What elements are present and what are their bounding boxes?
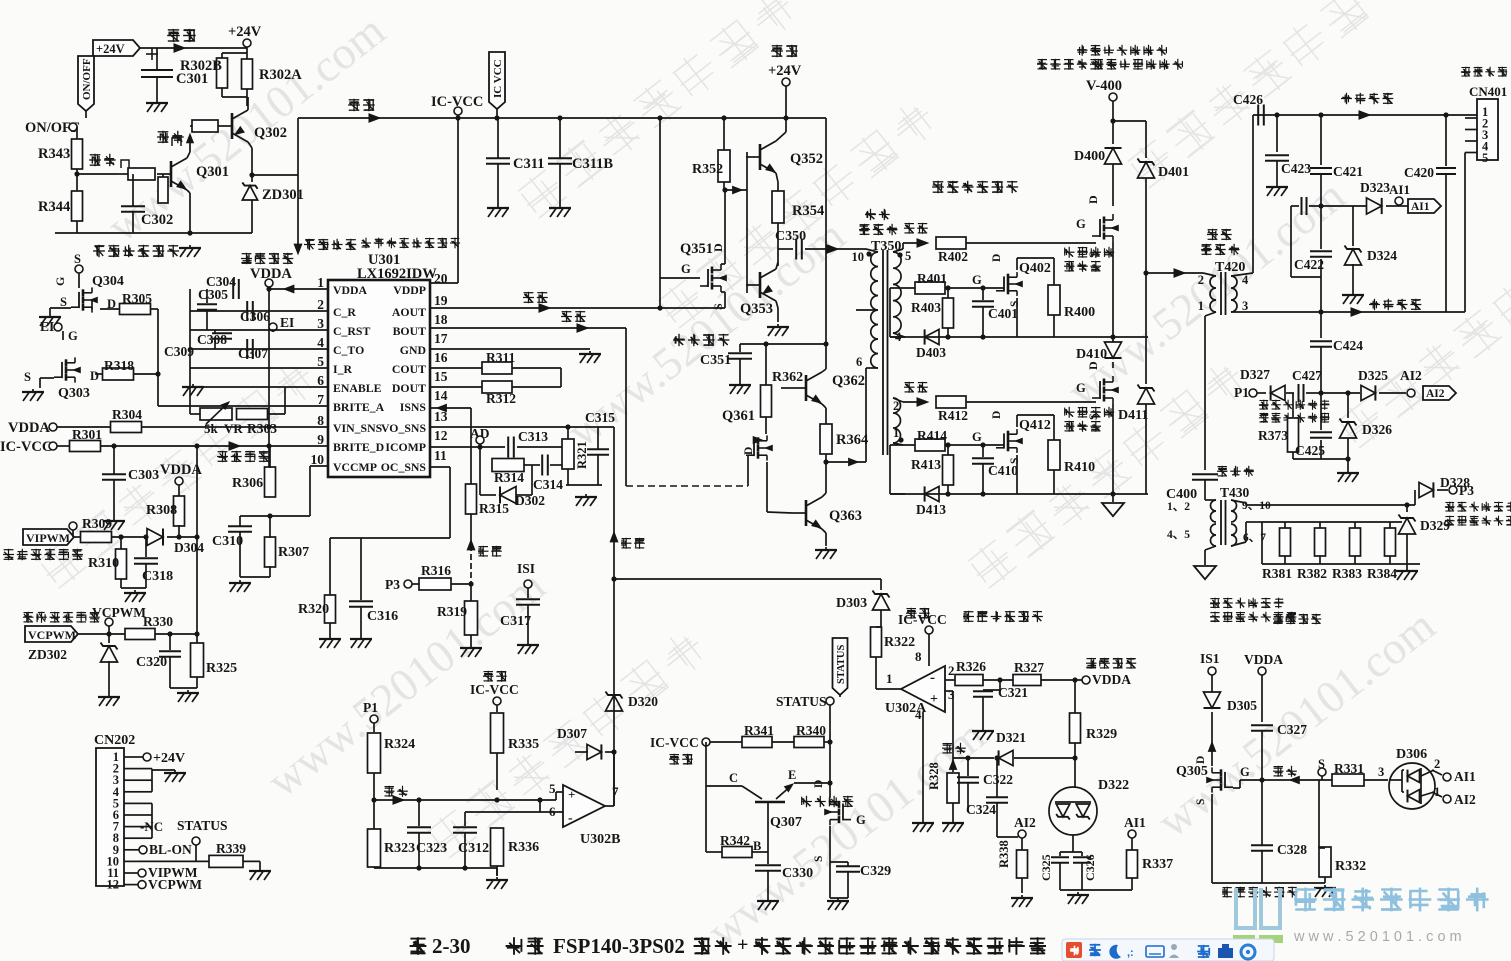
- wire Q363 emitter to ground: [822, 529, 826, 533]
- terminal AI1 right: [1432, 770, 1442, 775]
- svg-text:10: 10: [852, 250, 865, 264]
- resistor R383: [1354, 522, 1356, 528]
- ground under Q306: [830, 897, 848, 899]
- svg-text:VO_SNS: VO_SNS: [381, 421, 426, 435]
- svg-text:C330: C330: [782, 866, 813, 881]
- svg-text:C314: C314: [533, 477, 563, 492]
- capacitor C329: [830, 861, 848, 863]
- wire bottom rail protection: [1021, 878, 1023, 893]
- wire lower cell bottom rail: [890, 493, 1148, 495]
- wire Q412 source down: [1016, 455, 1018, 494]
- svg-text:S: S: [1009, 458, 1021, 464]
- ground under C330: [767, 898, 769, 900]
- svg-text:R307: R307: [278, 545, 309, 560]
- ground under R320: [329, 636, 331, 638]
- capacitor C311B: [559, 118, 561, 158]
- wire Q361 source down: [766, 462, 768, 512]
- svg-text:R302B: R302B: [180, 58, 222, 74]
- svg-text:C424: C424: [1333, 338, 1363, 353]
- svg-text:G: G: [1240, 765, 1250, 779]
- svg-text:Q303: Q303: [58, 386, 90, 401]
- label 推动电路: [673, 334, 729, 346]
- website logo text 家电维修资料网: [1294, 888, 1488, 912]
- resistor R303: [237, 409, 268, 420]
- svg-text:9: 9: [317, 432, 324, 447]
- svg-text:-: -: [568, 811, 573, 826]
- svg-text:B: B: [753, 839, 761, 853]
- svg-text:12: 12: [434, 428, 448, 443]
- svg-text:STATUS: STATUS: [177, 818, 228, 833]
- svg-text:IC-VCC: IC-VCC: [470, 682, 519, 697]
- CN202 pin12 VCPWM: [138, 881, 146, 889]
- svg-text:w w w . 5 2 0 1 0 1 . c o m: w w w . 5 2 0 1 0 1 . c o m: [1293, 929, 1462, 945]
- svg-text:20: 20: [434, 271, 448, 286]
- svg-text:R311: R311: [486, 350, 516, 365]
- svg-text:17: 17: [434, 331, 448, 346]
- svg-text:Q363: Q363: [829, 508, 862, 524]
- svg-text:VDDA: VDDA: [333, 283, 368, 297]
- wire pin12 ICOMP row and AD node: [430, 446, 505, 448]
- wire U301 pin1 row with arrow: [269, 288, 328, 290]
- svg-text:R301: R301: [72, 427, 102, 442]
- svg-text:R403: R403: [911, 300, 941, 315]
- wire left leg lower cell: [889, 445, 891, 494]
- svg-text:R329: R329: [1086, 727, 1117, 742]
- resistor R403: [943, 298, 954, 328]
- ground under C311B: [559, 205, 561, 207]
- svg-text:P1: P1: [363, 700, 378, 715]
- ground under R332: [1324, 885, 1326, 887]
- capacitor C307 series on pin4 row: [246, 339, 248, 359]
- wire T420 pin2 from driver: [1203, 273, 1216, 276]
- wire x=614 down from D320: [613, 579, 615, 806]
- svg-text:7: 7: [612, 784, 619, 799]
- svg-text:C324: C324: [966, 802, 996, 817]
- svg-text:G: G: [1076, 217, 1086, 231]
- wire right bus x=298 lamp-to-IC: [297, 118, 299, 250]
- capacitor C328: [1251, 844, 1273, 846]
- svg-text:AOUT: AOUT: [392, 305, 426, 319]
- wire U301 pin3 row: [190, 329, 328, 331]
- svg-text:5k: 5k: [204, 421, 219, 436]
- terminal V-400: [1109, 93, 1117, 101]
- svg-text:AI2: AI2: [1400, 368, 1422, 383]
- svg-text:AI1: AI1: [1389, 182, 1410, 197]
- wire +24V rail top-left: [140, 47, 247, 49]
- svg-text:VCPWM: VCPWM: [28, 628, 76, 642]
- svg-text:Q352: Q352: [790, 151, 823, 167]
- resistor R382: [1319, 522, 1321, 528]
- svg-text:R332: R332: [1335, 859, 1366, 874]
- svg-text:G: G: [972, 273, 982, 287]
- wire U301 pin9 row: [100, 445, 328, 447]
- wire Q352 emitter to R354: [776, 173, 778, 182]
- resistor R306: [265, 467, 276, 497]
- label 基准电压 VDDA: [241, 253, 293, 264]
- potentiometer 5k VR: [189, 380, 191, 414]
- resistor R413: [943, 455, 954, 485]
- svg-text:D: D: [1086, 195, 1100, 204]
- svg-text:C_TO: C_TO: [333, 343, 364, 357]
- pennant ON/OFF vertical: [78, 56, 94, 111]
- wire R320 column from rail y=538: [329, 538, 331, 595]
- wire pin13 VO_SNS row to protection line: [430, 426, 614, 428]
- wire T430 left down to earth: [1205, 499, 1216, 501]
- svg-text:Q301: Q301: [196, 164, 229, 180]
- T350 pin5: [897, 252, 902, 257]
- svg-text:C323: C323: [416, 841, 447, 856]
- wire C425 R373 bottoms to ground: [1321, 458, 1348, 460]
- svg-text:D400: D400: [1074, 149, 1105, 164]
- svg-text:R316: R316: [421, 563, 451, 578]
- capacitor C327: [1251, 724, 1273, 726]
- svg-text:R352: R352: [692, 162, 723, 177]
- wire gate row to S terminal: [1262, 779, 1313, 781]
- wire gate row to Q400: [966, 242, 1096, 244]
- svg-text:CN202: CN202: [94, 733, 135, 748]
- flag AI2: [1423, 386, 1456, 400]
- resistor R338: [1017, 850, 1028, 878]
- svg-text:C427: C427: [1292, 368, 1322, 383]
- svg-text:8: 8: [915, 649, 922, 664]
- capacitor C302: [132, 174, 134, 206]
- ground under R339: [259, 868, 261, 870]
- wire U301 pin10 row via R306 node: [310, 465, 328, 467]
- label 供电 (supply): [167, 29, 196, 42]
- capacitor C301: [156, 48, 158, 70]
- wire T430 pin6-7 to resistor rail: [1231, 542, 1246, 546]
- transistor Q302 (PNP): [231, 113, 234, 139]
- wire T430 pin9-10 to D328: [1231, 500, 1246, 503]
- svg-text:R328: R328: [927, 762, 941, 790]
- svg-text:3: 3: [1378, 765, 1384, 779]
- wire Q362 collector to mid rail: [822, 369, 826, 372]
- label 检测 up arrow: [942, 743, 966, 754]
- loop with R314: [479, 447, 481, 465]
- svg-text:R335: R335: [508, 737, 539, 752]
- svg-text:1: 1: [886, 671, 893, 686]
- capacitor C426 series on rail: [1257, 105, 1259, 126]
- capacitor C318: [145, 537, 147, 557]
- svg-text:R383: R383: [1332, 566, 1362, 581]
- junction dot C421 node: [1318, 203, 1323, 208]
- svg-text:T430: T430: [1220, 485, 1250, 500]
- capacitor C316: [360, 538, 362, 600]
- diode D305: [1204, 692, 1221, 708]
- dashed link to Q361 gate: [626, 485, 748, 487]
- svg-text:R340: R340: [796, 723, 826, 738]
- svg-text:C_R: C_R: [333, 305, 356, 319]
- ground under D326: [1347, 470, 1349, 472]
- wire driver mid rail y=344: [740, 343, 826, 345]
- svg-text:R322: R322: [884, 635, 915, 650]
- label 点灯控制 振荡器与控制电路: [304, 239, 356, 250]
- svg-text:C312: C312: [458, 841, 489, 856]
- svg-text:R310: R310: [88, 556, 119, 571]
- wire D323 row: [1309, 205, 1367, 207]
- zener ZD302: [101, 646, 118, 662]
- wire left leg upper cell: [889, 288, 891, 337]
- svg-text:R373: R373: [1258, 428, 1288, 443]
- connector CN401 body: [1461, 67, 1507, 77]
- resistor R322: [871, 627, 882, 657]
- wire R302 bottoms node: [221, 88, 223, 97]
- svg-text:STATUS: STATUS: [776, 694, 827, 709]
- wire BOUT vertical down x=626: [625, 328, 627, 486]
- label 供电 IC-VCC for U302B: [483, 671, 507, 682]
- ground at bottom rail of lamp block: [189, 245, 191, 247]
- wire Q351 gate from supply column: [660, 277, 700, 279]
- svg-text:2: 2: [317, 297, 324, 312]
- transistor Q352 NPN: [759, 144, 762, 170]
- capacitor C410: [982, 445, 984, 457]
- wire U302A pin2 to R326: [945, 679, 955, 681]
- arrow into Q302 base line: [187, 134, 194, 143]
- resistor R302B: [217, 58, 228, 88]
- svg-text:Q362: Q362: [832, 373, 865, 389]
- wire pin19 AOUT long row: [430, 307, 725, 309]
- resistor R304: [111, 422, 142, 433]
- diode D411: [1138, 388, 1155, 404]
- ground under C423: [1276, 184, 1278, 186]
- svg-text:R305: R305: [122, 291, 152, 306]
- ground under R336: [496, 877, 498, 879]
- svg-text:C: C: [729, 771, 738, 785]
- ground pin17: [589, 351, 591, 353]
- svg-text:R320: R320: [298, 602, 329, 617]
- svg-text:BRITE_A: BRITE_A: [333, 400, 385, 414]
- wire to U302A pin1: [876, 688, 901, 690]
- svg-text:R343: R343: [38, 146, 70, 162]
- svg-text:G: G: [68, 329, 78, 343]
- svg-text:VIN_SNS: VIN_SNS: [333, 421, 383, 435]
- wire C422 column to AC low rail: [1320, 277, 1322, 312]
- label 激励 lower cell: [904, 382, 928, 393]
- svg-text:IS1: IS1: [1200, 651, 1220, 666]
- diode D320 on protection line: [606, 695, 623, 711]
- svg-text:1、2: 1、2: [1167, 501, 1190, 513]
- resistor R362: [765, 344, 767, 386]
- wire CN401 pin5 column to AC low rail: [1464, 153, 1466, 313]
- wire T420 pin4 riser to AC rail: [1231, 273, 1253, 276]
- capacitor C427 series: [1298, 384, 1300, 402]
- zener D326: [1347, 393, 1349, 418]
- label 保护 with up arrow on R315 line: [467, 540, 475, 550]
- svg-text:D324: D324: [1367, 248, 1397, 263]
- svg-text:5: 5: [549, 781, 556, 796]
- svg-text:EI: EI: [280, 315, 294, 330]
- wire R340 to status column: [829, 742, 831, 798]
- wire C424 node to D325: [1321, 392, 1360, 394]
- capacitor C311: [497, 118, 499, 158]
- svg-text:15: 15: [434, 369, 448, 384]
- resistor R410: [1048, 440, 1060, 470]
- svg-text:D: D: [813, 780, 825, 788]
- svg-text:C426: C426: [1233, 92, 1263, 107]
- op-amp U302B: [563, 785, 605, 827]
- wire Q361 gate from dashed link: [747, 456, 749, 486]
- svg-text:R304: R304: [112, 407, 142, 422]
- ground under R319: [470, 645, 472, 647]
- resistor R337: [1127, 850, 1138, 878]
- diode D400: [1105, 148, 1122, 164]
- wire Q402 drain to R400: [1016, 258, 1018, 270]
- svg-text:R318: R318: [104, 358, 134, 373]
- resistor R402: [936, 237, 966, 249]
- resistor R331: [1332, 774, 1364, 786]
- wire opamp input jogs: [555, 792, 557, 800]
- wire opamp output to protection line: [605, 805, 614, 807]
- svg-text:10: 10: [311, 452, 325, 467]
- svg-text:C425: C425: [1295, 443, 1325, 458]
- terminal +24V driver supply: [771, 45, 798, 57]
- svg-text:G: G: [972, 430, 982, 444]
- flag VIPWM: [23, 529, 74, 545]
- svg-text:C_RST: C_RST: [333, 324, 370, 338]
- diode D302 loop: [479, 465, 481, 495]
- CN401 pin stub: [1465, 117, 1477, 119]
- ground under R328: [952, 820, 954, 822]
- svg-text:D306: D306: [1396, 747, 1427, 762]
- label 激励 on BOUT: [561, 311, 586, 322]
- svg-text:R309: R309: [82, 516, 112, 531]
- svg-text:VCPWM: VCPWM: [92, 605, 146, 620]
- resistor R311 on COUT row: [430, 367, 482, 369]
- svg-text:5: 5: [905, 249, 911, 263]
- svg-text:P1: P1: [1234, 385, 1249, 400]
- svg-text:1: 1: [893, 426, 899, 440]
- svg-text:2: 2: [948, 663, 955, 678]
- svg-text:,:: ,:: [1127, 947, 1134, 959]
- svg-text:C302: C302: [141, 212, 173, 228]
- wire AC low rail: [1231, 311, 1465, 313]
- svg-text:U302B: U302B: [580, 832, 620, 847]
- wire U301 pin6 row: [190, 386, 285, 388]
- svg-text:D: D: [991, 411, 1003, 419]
- wire U301 pin7 row: [158, 405, 328, 407]
- wire R352 bottom node to base bus: [723, 182, 725, 190]
- svg-text:-NC: -NC: [140, 819, 163, 834]
- svg-text:G: G: [53, 277, 67, 286]
- terminal AI2 right: [1432, 792, 1442, 797]
- svg-text:Q305: Q305: [1176, 764, 1208, 779]
- ground under Q304: [49, 314, 51, 316]
- svg-text:C316: C316: [367, 609, 398, 624]
- resistor R328: [947, 773, 959, 803]
- svg-text:C351: C351: [700, 353, 731, 368]
- svg-text:16: 16: [434, 350, 448, 365]
- resistor R339: [209, 855, 243, 867]
- ground under R325: [170, 687, 197, 689]
- svg-text:R410: R410: [1064, 460, 1095, 475]
- wire branch to T420 primary: [1146, 272, 1203, 274]
- svg-text:AI1: AI1: [1411, 201, 1430, 213]
- CN401 pin stub: [1465, 140, 1477, 142]
- transistor Q362 NPN: [805, 375, 808, 401]
- pennant IC VCC vertical: [489, 52, 505, 109]
- resistor R400: [1048, 285, 1060, 315]
- wire Q402 source down: [1016, 298, 1018, 337]
- svg-text:C317: C317: [500, 614, 531, 629]
- diode D401: [1145, 121, 1147, 158]
- svg-text:AI1: AI1: [1454, 769, 1476, 784]
- capacitor C401: [982, 288, 984, 300]
- svg-text:R319: R319: [437, 604, 467, 619]
- capacitors C325 C326: [1059, 852, 1061, 856]
- node wire to Q301 base: [76, 169, 78, 233]
- zener D324: [1352, 206, 1354, 246]
- svg-text:C325: C325: [1039, 854, 1053, 881]
- svg-text:3: 3: [948, 687, 955, 702]
- wire Q362 emitter to R364: [822, 404, 826, 408]
- svg-text:VDDA: VDDA: [1244, 652, 1283, 667]
- svg-text:C311B: C311B: [572, 156, 613, 172]
- svg-text:+: +: [737, 934, 748, 956]
- mosfet Q410 switch: [1099, 381, 1101, 399]
- waveform symbol 开关 at Q302 base: [157, 131, 184, 143]
- svg-text:6: 6: [856, 355, 862, 369]
- wire U301 pin4 row: [190, 348, 328, 350]
- svg-text:R382: R382: [1297, 566, 1327, 581]
- label 交流高压 top: [1341, 93, 1393, 104]
- svg-text:P3: P3: [385, 577, 400, 592]
- terminal VDDA ref: [265, 279, 273, 287]
- svg-text:D305: D305: [1227, 698, 1257, 713]
- wire resistor bottom rail: [1262, 563, 1420, 565]
- wire Q302 collector down: [248, 142, 252, 148]
- label 保护 with arrow at x=614: [610, 532, 618, 542]
- svg-text:7: 7: [317, 392, 324, 407]
- earth triangle under T430: [1194, 566, 1216, 579]
- svg-text:D410: D410: [1076, 347, 1107, 362]
- capacitor C423: [1276, 115, 1278, 152]
- flag VCPWM: [25, 626, 78, 642]
- resistor R318: [103, 368, 134, 380]
- svg-text:Q402: Q402: [1019, 261, 1051, 276]
- svg-text:D322: D322: [1098, 778, 1129, 793]
- ground under R321 C315: [566, 484, 602, 486]
- resistor R330: [125, 629, 155, 640]
- resistor R326: [955, 675, 983, 686]
- svg-text:R384: R384: [1367, 566, 1397, 581]
- resistor R301: [70, 441, 101, 452]
- svg-text:R402: R402: [938, 249, 968, 264]
- wire gate row to Q410: [966, 401, 1096, 403]
- wire pin14 ISNS row: [430, 407, 471, 409]
- label 交流高压 bottom: [1369, 299, 1421, 310]
- resistor R312 on DOUT row: [430, 386, 482, 388]
- capacitor C324: [986, 796, 1008, 798]
- svg-text:C410: C410: [988, 463, 1018, 478]
- svg-text:IC-VCC: IC-VCC: [898, 612, 947, 627]
- label 激励 on AOUT: [523, 292, 548, 303]
- capacitor C425: [1320, 393, 1322, 430]
- wire Q305 gate node: [1233, 787, 1240, 789]
- resistor R384: [1389, 522, 1391, 528]
- wire AC high rail top: [1253, 114, 1477, 116]
- svg-text:C315: C315: [585, 410, 615, 425]
- svg-text:D323: D323: [1360, 180, 1390, 195]
- svg-text:Q361: Q361: [722, 408, 755, 424]
- svg-text:4、5: 4、5: [1167, 529, 1190, 541]
- transistor Q303 mosfet: [61, 362, 63, 378]
- ground under C311: [497, 205, 499, 207]
- transistor Q363 NPN: [805, 500, 808, 526]
- svg-text:BL-ON: BL-ON: [149, 842, 192, 857]
- wire Q353 top to C350 node: [776, 262, 778, 269]
- svg-text:C320: C320: [136, 655, 167, 670]
- label 模拟亮度调整: [3, 549, 83, 560]
